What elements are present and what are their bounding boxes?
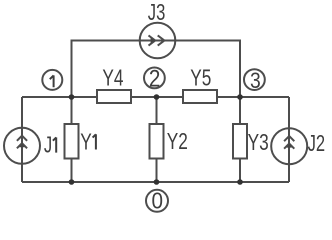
svg-text:Y: Y: [80, 130, 92, 155]
svg-text:J3: J3: [148, 1, 165, 26]
svg-text:Y2: Y2: [167, 130, 188, 155]
svg-text:Y3: Y3: [248, 131, 269, 156]
svg-text:J2: J2: [308, 131, 325, 156]
svg-text:0: 0: [152, 188, 164, 214]
svg-text:2: 2: [149, 65, 160, 92]
svg-text:3: 3: [250, 69, 261, 93]
svg-text:Y4: Y4: [102, 66, 123, 91]
svg-text:Y5: Y5: [190, 66, 211, 91]
svg-text:J: J: [44, 133, 52, 158]
